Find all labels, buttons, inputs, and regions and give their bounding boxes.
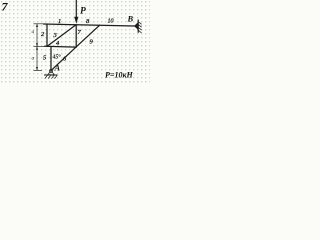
svg-text:A: A [54,63,61,73]
svg-text:a: a [32,56,35,62]
force P arrow [74,0,78,24]
support A pin [44,70,58,79]
dimension arrowheads [36,24,38,70]
member 7 middle vertical [75,25,77,47]
member 6 diagonal to A [51,47,76,71]
support A hatching [45,75,57,78]
svg-text:7: 7 [2,0,9,14]
member 10 top chord to wall [100,24,135,27]
member 1 top chord left panel [44,23,77,26]
svg-text:P=10кН: P=10кН [105,71,134,80]
member 9 diagonal [76,25,100,47]
dimension line [34,24,45,71]
member 8 top chord middle panel [76,24,100,27]
svg-text:B: B [127,14,134,24]
svg-text:10: 10 [108,19,114,25]
svg-text:1: 1 [58,18,61,25]
svg-text:a: a [32,29,35,35]
svg-text:45°: 45° [53,54,62,61]
member 3 diagonal [47,25,76,47]
member 5 lower strut [50,47,52,71]
wall support B [134,20,142,34]
member 4 bottom chord [45,45,77,48]
member 2 left vertical [46,24,48,46]
background halftone dots [0,0,150,84]
svg-text:P: P [80,7,86,17]
support A ground line [44,74,58,76]
